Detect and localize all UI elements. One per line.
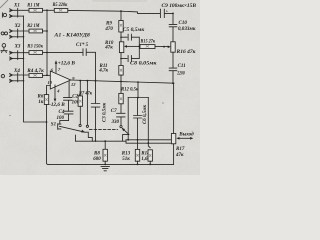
- capacitor C2 100: [64, 81, 73, 111]
- node summing junctions: [46, 9, 48, 11]
- svg-text:X2: X2: [14, 24, 21, 29]
- capacitor C10 0.033mk: [169, 13, 177, 41]
- source icon pickup at X1: [2, 13, 6, 17]
- svg-text:R17: R17: [176, 147, 185, 152]
- svg-text:Выход: Выход: [178, 132, 194, 137]
- svg-text:+12,6 В: +12,6 В: [58, 62, 76, 67]
- svg-text:680: 680: [93, 157, 101, 162]
- svg-text:X4: X4: [13, 69, 20, 74]
- svg-text:1к: 1к: [38, 100, 44, 105]
- capacitor C6 0.5mk: [134, 98, 142, 150]
- svg-text:С3 0,5мк: С3 0,5мк: [103, 102, 108, 122]
- svg-text:4,7к: 4,7к: [98, 68, 108, 73]
- svg-text:S1: S1: [51, 123, 56, 128]
- svg-text:С11: С11: [178, 64, 186, 69]
- source icon microphone at X3: [1, 44, 7, 53]
- svg-text:С10: С10: [179, 21, 188, 26]
- power -12.6V pin 4: [54, 85, 56, 99]
- svg-text:R9: R9: [106, 22, 112, 27]
- svg-text:С8 0,05мк: С8 0,05мк: [130, 62, 157, 67]
- wire second throw from output: [86, 81, 88, 125]
- wire summing bus: [46, 10, 48, 75]
- wire branch to R14: [148, 98, 150, 148]
- power +12.6V pin 7: [55, 64, 57, 73]
- op-amp A1: [50, 71, 70, 89]
- potentiometer R17 47k: [173, 83, 175, 133]
- switch S1 section 2: [122, 128, 129, 134]
- svg-text:С6 0,5мк: С6 0,5мк: [143, 105, 148, 124]
- svg-text:R5 220к: R5 220к: [53, 3, 68, 8]
- ground: [101, 166, 109, 170]
- svg-text:R1 1М: R1 1М: [27, 3, 40, 8]
- svg-text:R12 0,5к: R12 0,5к: [121, 88, 139, 93]
- capacitor C3 0.5mk: [95, 80, 97, 82]
- svg-text:X1: X1: [13, 3, 20, 8]
- wire output bus: [71, 80, 174, 83]
- svg-text:2200: 2200: [177, 71, 186, 76]
- svg-text:R6: R6: [38, 95, 44, 100]
- svg-text:R15 27к: R15 27к: [141, 39, 156, 44]
- svg-text:R3 150к: R3 150к: [27, 44, 43, 49]
- svg-text:47к: 47к: [104, 46, 113, 51]
- wire lower bus L1: [76, 140, 127, 142]
- capacitor C4 100: [60, 111, 73, 123]
- svg-text:R8: R8: [94, 152, 100, 157]
- svg-text:100: 100: [57, 116, 65, 121]
- scan smudges inside resistor bodies: [34, 9, 152, 157]
- svg-text:С4: С4: [59, 110, 65, 115]
- network C6 tree: [137, 81, 139, 83]
- svg-text:-12,6 В: -12,6 В: [49, 103, 65, 108]
- svg-text:R2 1М: R2 1М: [27, 24, 40, 29]
- svg-text:0,033мк: 0,033мк: [178, 27, 196, 32]
- svg-text:R16 47к: R16 47к: [177, 50, 197, 55]
- svg-text:330: 330: [111, 120, 120, 125]
- wire top feedback line: [68, 10, 160, 13]
- wire ground bottom bus: [48, 163, 174, 165]
- switch link dashed: [90, 129, 118, 131]
- svg-text:А1 - К140УД8: А1 - К140УД8: [53, 33, 90, 38]
- wire ground drop from connectors: [24, 16, 47, 122]
- svg-text:51к: 51к: [122, 157, 130, 162]
- wire lower bus pair: [126, 140, 172, 143]
- svg-text:470: 470: [104, 27, 113, 32]
- capacitor C11 2200: [169, 52, 177, 83]
- svg-text:X3: X3: [14, 45, 21, 50]
- potentiometer R16 47k: [171, 42, 175, 52]
- source icon tape recorder at X2: [1, 32, 7, 35]
- junction dots lower buses: [95, 140, 97, 142]
- svg-text:47к: 47к: [175, 153, 184, 158]
- svg-text:С1* 5: С1* 5: [76, 43, 89, 48]
- wire opamp lower input: [47, 86, 51, 95]
- svg-text:R13: R13: [122, 151, 131, 156]
- svg-text:С5 0,5мк: С5 0,5мк: [123, 28, 145, 33]
- source icon input X4: [1, 74, 4, 77]
